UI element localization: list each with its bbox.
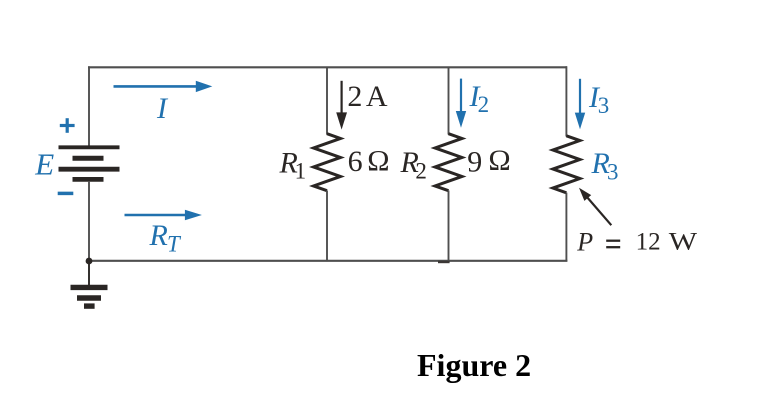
battery E: [59, 147, 120, 179]
current arrow I: [114, 81, 213, 92]
svg-text:E: E: [34, 147, 54, 182]
svg-text:P: P: [576, 227, 593, 256]
svg-text:T: T: [167, 231, 182, 256]
wire R1 branch top: [326, 67, 328, 134]
svg-text:2: 2: [478, 92, 490, 117]
wire bottom: [88, 260, 567, 262]
current arrow RT: [125, 210, 202, 220]
svg-text:12: 12: [636, 229, 661, 256]
node junction (bottom-left): [86, 258, 93, 265]
wire left lower: [88, 182, 90, 261]
wire ground stub: [88, 261, 90, 285]
current arrow I3: [575, 79, 585, 130]
pointer arrow to R3 (P): [579, 188, 611, 225]
svg-text:Figure 2: Figure 2: [417, 347, 531, 383]
wire R1 branch bottom: [326, 191, 328, 262]
current arrow I2: [456, 79, 466, 128]
svg-text:2: 2: [347, 80, 362, 113]
wire right lower: [565, 193, 567, 262]
svg-text:6: 6: [348, 145, 363, 178]
resistor R1: [314, 134, 341, 191]
svg-text:1: 1: [295, 158, 307, 183]
wire right upper: [565, 66, 567, 136]
resistor R2: [435, 134, 462, 191]
wire R2 branch bottom: [448, 191, 450, 262]
current arrow 2A: [336, 81, 347, 130]
svg-text:3: 3: [607, 160, 619, 185]
wire top: [88, 66, 567, 68]
label + (battery plus): [60, 118, 75, 133]
svg-text:A: A: [366, 80, 388, 113]
svg-text:R: R: [149, 219, 168, 252]
svg-text:9: 9: [467, 145, 482, 178]
svg-text:Ω: Ω: [488, 144, 510, 177]
svg-text:2: 2: [415, 159, 427, 184]
svg-text:3: 3: [598, 93, 610, 118]
label - (battery minus): [58, 192, 74, 196]
svg-text:Ω: Ω: [367, 145, 389, 178]
svg-text:W: W: [669, 227, 697, 255]
wire left upper: [88, 66, 90, 146]
resistor R3: [553, 136, 580, 193]
wire junction mark (R2 bottom): [438, 261, 450, 263]
wire R2 branch top: [448, 67, 450, 134]
svg-text:I: I: [156, 92, 169, 125]
ground: [71, 287, 108, 306]
